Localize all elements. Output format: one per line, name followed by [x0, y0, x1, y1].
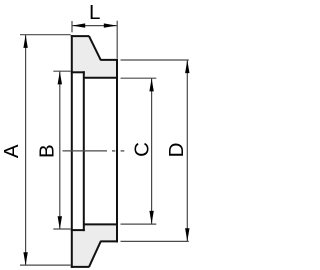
dimension B extension line top [53, 70, 70, 72]
counterbore step face edge [83, 71, 85, 231]
dimension C arrow top [149, 78, 153, 91]
dimension D arrow bottom [185, 228, 189, 241]
bottom OD edge [71, 266, 89, 268]
counterbore step bottom edge [71, 229, 85, 231]
dimension C line [151, 78, 153, 224]
dimension L extension line right [116, 21, 118, 59]
centerline [63, 150, 125, 152]
dimension B extension line bottom [53, 228, 70, 230]
svg-text:D: D [165, 143, 188, 158]
dimension L arrow left [72, 23, 85, 27]
top chamfer slant [89, 36, 101, 60]
dimension L arrow right [104, 23, 117, 27]
dimension C arrow bottom [149, 211, 153, 224]
dimension D arrow top [185, 60, 189, 73]
svg-text:A: A [0, 144, 23, 158]
dimension B arrow top [58, 71, 62, 84]
top OD edge [71, 35, 89, 37]
dimension B arrow bottom [58, 216, 62, 229]
left end face edge [71, 35, 73, 268]
dimension C extension line top [121, 77, 157, 79]
bore bottom edge [84, 223, 118, 225]
dimension A arrow bottom [23, 252, 27, 265]
svg-text:L: L [89, 1, 100, 24]
flange OD top edge [100, 59, 118, 61]
ferrule cross-section lower half fill [72, 224, 117, 267]
counterbore step top edge [71, 71, 85, 73]
dimension D extension line bottom [121, 240, 189, 242]
flange OD bottom edge [100, 240, 118, 242]
dimension L line [72, 25, 116, 27]
right flange face edge [116, 59, 118, 243]
dimension D extension line top [121, 59, 189, 61]
dimension D line [186, 60, 188, 241]
dimension L extension line left [71, 21, 73, 32]
bottom chamfer slant [89, 241, 101, 267]
dimension B line [59, 72, 61, 230]
dimension C extension line bottom [121, 223, 157, 225]
dimension A extension line top [20, 34, 71, 36]
dimension A line [25, 35, 27, 265]
dimension A extension line bottom [20, 264, 71, 266]
ferrule cross-section upper half fill [72, 36, 117, 78]
svg-text:C: C [130, 142, 153, 157]
svg-text:B: B [35, 144, 58, 158]
bore top edge [84, 77, 118, 79]
dimension A arrow top [23, 35, 27, 48]
